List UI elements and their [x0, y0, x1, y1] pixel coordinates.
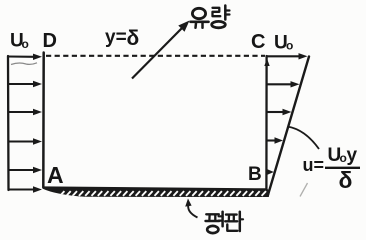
left profile arrow 2 [8, 81, 42, 87]
svg-text:δ: δ [127, 27, 140, 50]
svg-text:δ: δ [339, 167, 353, 193]
flow-rate arrow (toward label) [132, 21, 190, 79]
leader curve from formula to slanted profile line [288, 127, 320, 150]
label y = delta [105, 27, 139, 50]
svg-text:y: y [347, 145, 358, 166]
left uniform velocity profile: outer vertical line [7, 56, 10, 190]
stray pencil squiggle under top rung [11, 63, 37, 65]
left profile arrow 3 [8, 109, 42, 115]
Korean label 유량, glyph 량 [212, 6, 230, 28]
svg-text:C: C [251, 31, 265, 53]
rectangle left edge (D to A) [42, 53, 45, 188]
left profile arrow 6 (bottom rung) [9, 186, 43, 192]
Korean label 평판, glyph 판 [225, 212, 243, 231]
left profile arrow 1 (top rung) [8, 54, 42, 60]
Korean label 유량 (flow rate), glyph 유 [191, 8, 209, 28]
right profile arrow 4 [267, 137, 283, 143]
label U0 (top-right free stream velocity) [274, 33, 293, 54]
label U0 (top-left free stream velocity) [10, 30, 29, 51]
svg-text:u=: u= [303, 155, 325, 175]
right profile arrow 5 (small, near B) [267, 169, 274, 175]
svg-text:A: A [47, 162, 64, 188]
leader arrow from flat plate to label [185, 199, 197, 218]
flat plate hatching (white gaps) [60, 191, 266, 196]
svg-text:B: B [248, 164, 262, 185]
left profile arrow 4 [8, 138, 42, 144]
small up arrowhead on right vertical [264, 59, 269, 67]
right profile arrow 3 [267, 109, 292, 115]
left profile arrow 5 [8, 167, 42, 173]
svg-text:o: o [22, 37, 29, 51]
faint stray pencil mark below formula [300, 183, 308, 197]
right profile arrow 2 [267, 81, 300, 87]
top boundary dashed line y = delta (D to C) [46, 55, 265, 57]
right linear velocity profile: vertical line (C down to B) [265, 56, 268, 193]
svg-text:D: D [43, 30, 57, 52]
formula u = U0 y / delta [303, 145, 361, 193]
right profile slanted envelope line [268, 57, 309, 196]
svg-text:o: o [286, 39, 293, 53]
svg-text:y=: y= [105, 27, 127, 48]
Korean label 평판 (flat plate), glyph 평 [206, 212, 223, 233]
right profile top arrow (at free stream) [267, 53, 308, 59]
